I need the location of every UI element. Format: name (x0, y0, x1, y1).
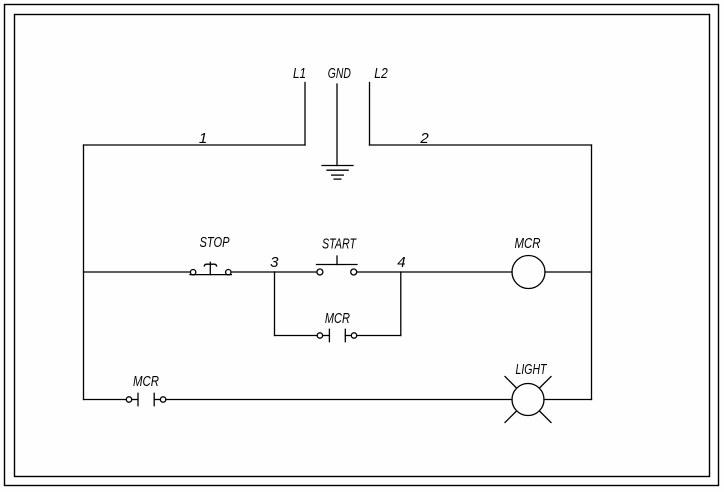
svg-text:START: START (322, 236, 357, 253)
node 2 (419, 130, 429, 147)
ground (322, 166, 353, 180)
wire right rail (591, 145, 593, 400)
svg-text:MCR: MCR (515, 235, 541, 252)
svg-text:MCR: MCR (133, 373, 159, 390)
label MCR (seal-in contact) (325, 310, 350, 327)
wire rung2 (contact to lamp) (166, 399, 512, 401)
wire rung1 (coil to right rail) (545, 271, 592, 273)
wire branch bottom right (357, 335, 401, 337)
relay coil MCR (512, 256, 545, 289)
svg-text:3: 3 (270, 254, 279, 271)
label MCR (rung 2 contact) (133, 373, 159, 390)
wire L1 drop (304, 83, 306, 146)
svg-text:STOP: STOP (200, 234, 230, 251)
lamp LIGHT (505, 377, 551, 423)
node GND (328, 65, 351, 82)
wire rung2 left (rail to MCR contact) (84, 399, 127, 401)
svg-text:L1: L1 (293, 65, 306, 82)
wire rung1 (START to node 4 to coil) (357, 271, 512, 273)
svg-text:GND: GND (328, 65, 351, 82)
contact MCR (rung 2, NO) (126, 393, 166, 405)
wire rung1 (node 3 to START) (275, 271, 317, 273)
label START (322, 236, 357, 253)
wire net 1 (L1 to left rail) (84, 144, 306, 146)
wire rung2 (lamp to right rail) (544, 399, 592, 401)
pushbutton STOP (NC) (190, 262, 231, 275)
node 1 (199, 130, 207, 147)
svg-text:1: 1 (199, 130, 207, 147)
wire L2 drop (369, 83, 371, 146)
node 3 (270, 254, 279, 271)
svg-text:2: 2 (419, 130, 429, 147)
svg-text:4: 4 (397, 254, 405, 271)
wire rung1 (STOP to node 3) (231, 271, 274, 273)
wire branch right vertical (node 4 down) (400, 272, 402, 336)
pushbutton START (NO) (317, 256, 358, 275)
label STOP (200, 234, 230, 251)
wire branch left vertical (node 3 down) (274, 272, 276, 336)
node 4 (397, 254, 405, 271)
wire branch bottom left (275, 335, 318, 337)
wire left rail (83, 145, 85, 400)
contact MCR (NO seal-in) (317, 329, 357, 341)
svg-text:LIGHT: LIGHT (516, 361, 548, 378)
wire GND drop (336, 84, 338, 166)
svg-text:MCR: MCR (325, 310, 350, 327)
wire net 2 (L2 to right rail) (370, 144, 592, 146)
node L2 (374, 65, 388, 82)
svg-text:L2: L2 (374, 65, 388, 82)
label LIGHT (516, 361, 548, 378)
node L1 (293, 65, 306, 82)
label MCR (coil) (515, 235, 541, 252)
wire rung1 left (rail to STOP) (84, 271, 191, 273)
